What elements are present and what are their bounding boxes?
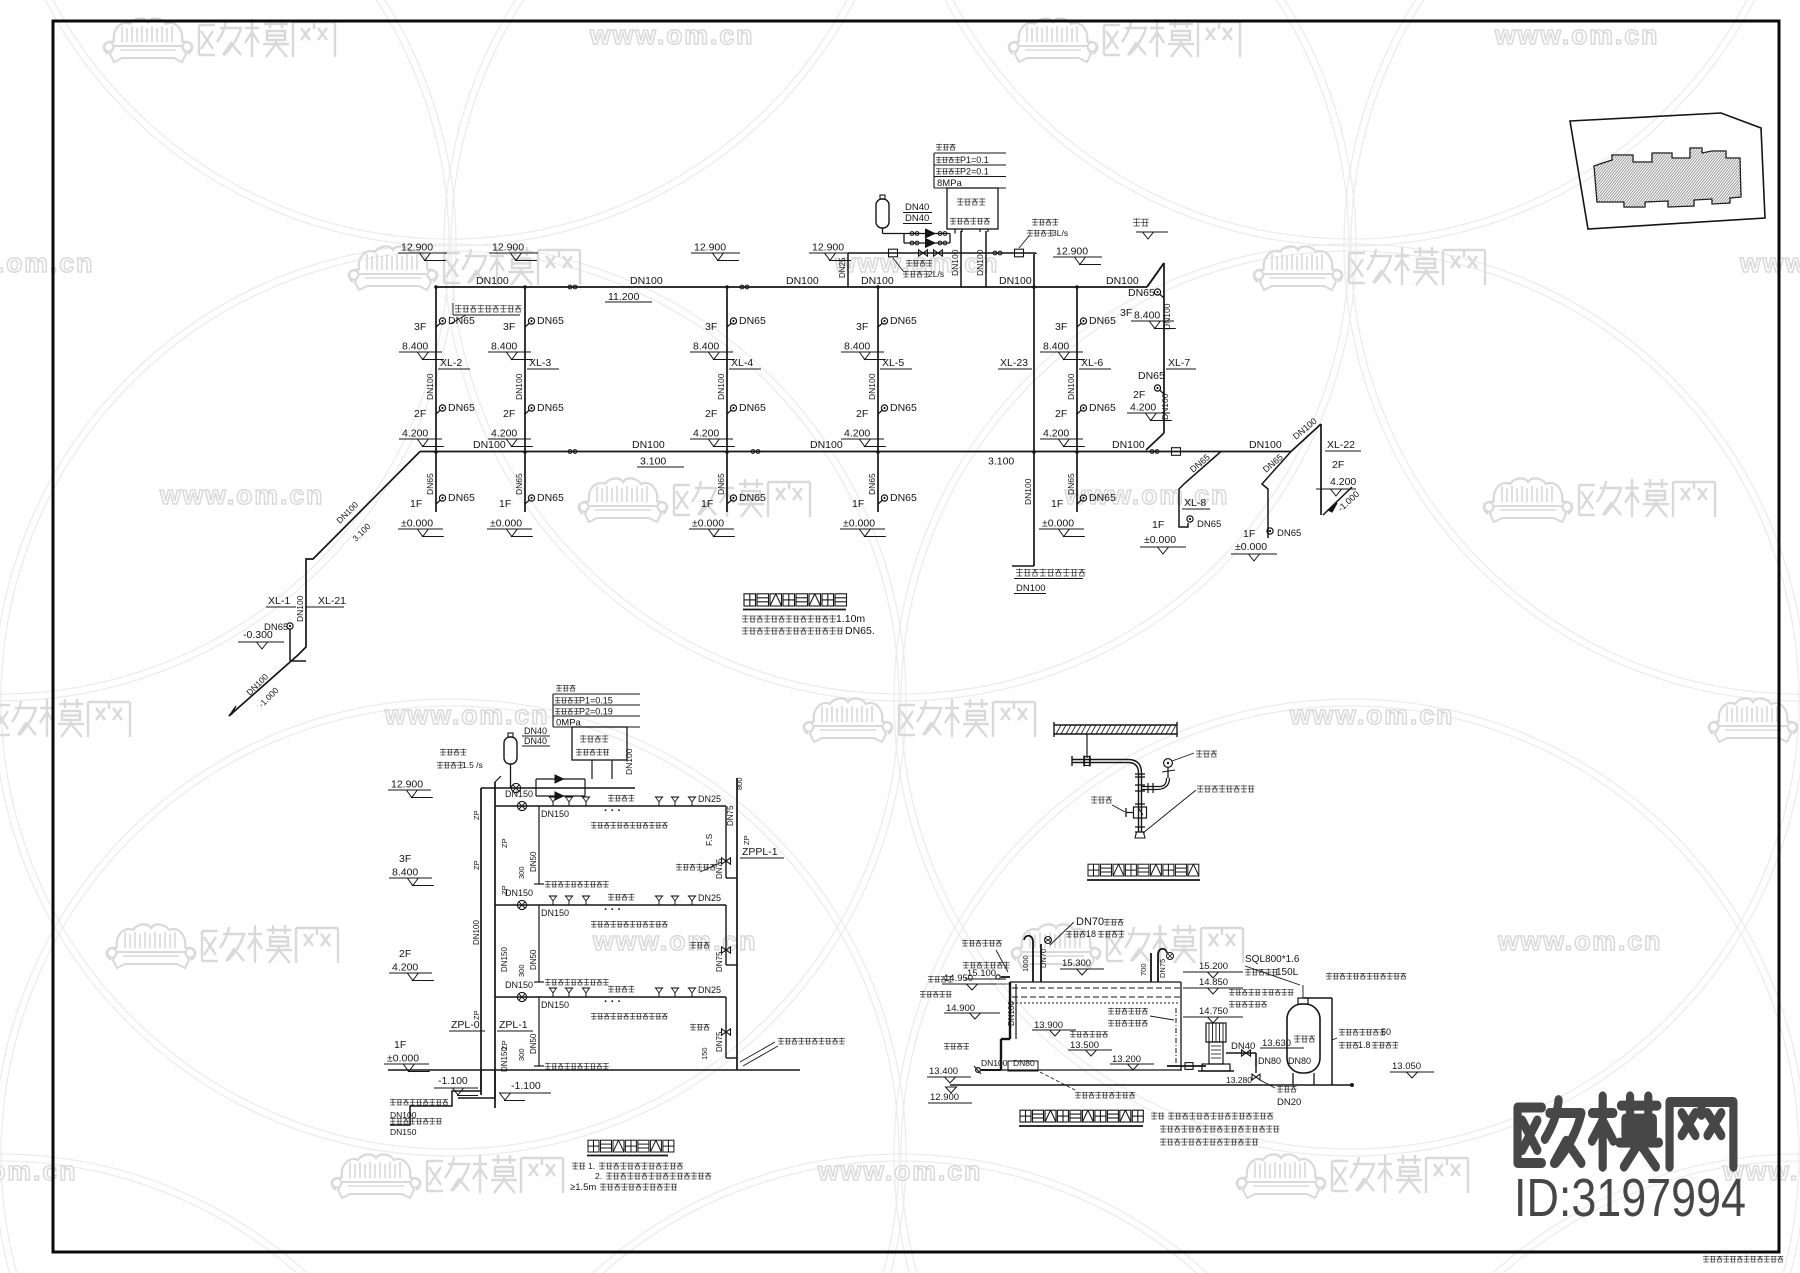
pressure gauge (1167, 768, 1169, 778)
riser ZPL-1 (494, 782, 496, 1108)
title roof tank (1020, 1110, 1031, 1122)
svg-text:ZP: ZP (472, 810, 481, 820)
svg-text:±0.000: ±0.000 (387, 1053, 419, 1065)
pump branch pipes (883, 233, 951, 235)
svg-text:2F: 2F (503, 408, 515, 420)
svg-text:DN150: DN150 (505, 888, 533, 898)
hydrant 1F (436, 500, 441, 504)
watermark om logo (332, 1154, 563, 1198)
watermark om logo (804, 698, 1035, 742)
watermark om logo (349, 246, 580, 290)
svg-text:±0.000: ±0.000 (401, 518, 433, 530)
watermark om logo (1709, 698, 1800, 742)
svg-text:DN65: DN65 (1089, 402, 1116, 414)
svg-text:XL-2: XL-2 (440, 357, 462, 369)
svg-text:DN100: DN100 (473, 439, 506, 451)
svg-text:2F: 2F (1055, 408, 1067, 420)
svg-text:DN150: DN150 (541, 908, 569, 918)
svg-text:4.200: 4.200 (1043, 428, 1069, 440)
svg-text:DN100: DN100 (975, 249, 985, 276)
watermark circle (444, 1154, 1356, 1273)
svg-text:DN65: DN65 (1128, 287, 1155, 299)
svg-text:DN150: DN150 (500, 947, 509, 972)
vent pipe 2 (1150, 953, 1152, 982)
branch drop DN75 (725, 905, 727, 965)
drain stub (538, 997, 540, 1066)
svg-text:XL-5: XL-5 (882, 357, 904, 369)
svg-text:DN150: DN150 (541, 1000, 569, 1010)
svg-text:DN100: DN100 (632, 439, 665, 451)
svg-text:DN25: DN25 (838, 257, 847, 278)
svg-text:8.400: 8.400 (693, 341, 719, 353)
sprinkler notes (572, 1162, 578, 1164)
svg-text:DN100: DN100 (1066, 373, 1076, 400)
branch note to city main (1012, 565, 1034, 567)
svg-text:8.400: 8.400 (1134, 310, 1160, 322)
svg-text:XL-4: XL-4 (731, 357, 753, 369)
svg-text:12.900: 12.900 (694, 242, 726, 254)
hydrant 3F (525, 323, 530, 327)
watermark om logo (1012, 924, 1243, 968)
svg-text:3F: 3F (503, 321, 515, 333)
svg-text:1F: 1F (852, 498, 864, 510)
tank bottom note (1040, 1072, 1075, 1090)
watermark om logo (579, 478, 810, 522)
svg-text:2F: 2F (1332, 459, 1344, 471)
svg-text:DN100: DN100 (716, 373, 726, 400)
svg-text:2L/s: 2L/s (928, 269, 944, 279)
svg-text:DN25: DN25 (698, 893, 721, 903)
svg-text:DN75: DN75 (715, 858, 724, 879)
svg-text:DN100: DN100 (295, 595, 305, 622)
signal switch labels (1019, 236, 1029, 248)
svg-text:www.om.cn: www.om.cn (1497, 926, 1662, 956)
header fittings (889, 249, 898, 257)
svg-text:DN100: DN100 (786, 275, 819, 287)
ground line (388, 1069, 800, 1071)
svg-text:DN65: DN65 (890, 315, 917, 327)
watermark om logo (1484, 478, 1715, 522)
svg-text:1F: 1F (394, 1039, 406, 1051)
hydrant 3F (727, 323, 732, 327)
sprinkler switch labels (440, 748, 446, 750)
svg-text:1F: 1F (499, 498, 511, 510)
svg-text:2F: 2F (399, 948, 411, 960)
svg-text:DN40: DN40 (905, 213, 929, 224)
svg-text:12.900: 12.900 (812, 242, 844, 254)
svg-text:-1.100: -1.100 (438, 1075, 468, 1087)
hydrant XL-7 2F (1160, 390, 1165, 394)
svg-text:≥1.5m: ≥1.5m (570, 1182, 596, 1193)
svg-text:DN150: DN150 (505, 789, 533, 799)
svg-text:DN75: DN75 (715, 951, 724, 972)
hydrant 1F (525, 500, 530, 504)
svg-text:DN100: DN100 (1162, 303, 1172, 330)
key plan outline (1570, 113, 1765, 229)
svg-text:DN65: DN65 (537, 402, 564, 414)
sprinkler feed line (481, 787, 635, 789)
svg-text:DN65: DN65 (448, 492, 475, 504)
level glass (1175, 1008, 1177, 1066)
pipe to -1.000 (1323, 487, 1352, 515)
svg-text:1F: 1F (701, 498, 713, 510)
drop to XL-8 (1179, 452, 1221, 528)
svg-text:DN100: DN100 (1007, 1001, 1016, 1026)
riser ZPPL-1 (736, 778, 738, 1070)
svg-text:DN100: DN100 (810, 439, 843, 451)
svg-text:XL-6: XL-6 (1081, 357, 1103, 369)
svg-text:3L/s: 3L/s (1052, 228, 1068, 238)
svg-text:3F: 3F (414, 321, 426, 333)
svg-text:www.om.cn: www.om.cn (817, 1156, 982, 1186)
sprinkler branch 997.0 (495, 996, 726, 998)
drop to mid 1F (1262, 452, 1291, 539)
watermark circle (1344, 0, 1800, 701)
svg-text:-1.100: -1.100 (511, 1080, 541, 1092)
frame stamp text (1703, 1255, 1709, 1257)
svg-text:±0.000: ±0.000 (843, 518, 875, 530)
svg-text:· · ·: · · · (604, 996, 621, 1008)
watermark om logo (1254, 246, 1485, 290)
svg-text:8.400: 8.400 (491, 341, 517, 353)
svg-text:700: 700 (1139, 963, 1148, 976)
svg-text:13.200: 13.200 (1112, 1054, 1141, 1065)
left level marks (962, 939, 968, 941)
svg-text:150: 150 (700, 1047, 709, 1060)
svg-text:DN70: DN70 (1076, 916, 1104, 928)
svg-text:2F: 2F (705, 408, 717, 420)
svg-text:DN65: DN65 (1197, 519, 1221, 530)
hydrant 2F (436, 410, 441, 414)
title sprinkler system (588, 1140, 599, 1152)
pump lower (926, 239, 935, 248)
left outlet pipes (981, 1069, 1001, 1071)
svg-text:2.: 2. (595, 1171, 602, 1181)
svg-text:3.100: 3.100 (988, 456, 1014, 468)
pump discharge (1226, 1052, 1256, 1054)
title end test device (1088, 864, 1099, 876)
svg-text:4.200: 4.200 (491, 428, 517, 440)
svg-text:XL-21: XL-21 (318, 595, 346, 607)
pressure data table (934, 152, 1006, 154)
svg-text:DN100: DN100 (1016, 583, 1046, 594)
hydrant XL-8 (1187, 516, 1193, 522)
svg-text:DN150: DN150 (505, 980, 533, 990)
riser ZPL-0 (480, 788, 482, 1095)
hydrant 2F (878, 410, 883, 414)
svg-text:3F: 3F (399, 853, 411, 865)
svg-text:DN100: DN100 (425, 373, 435, 400)
svg-text:14.750: 14.750 (1199, 1006, 1228, 1017)
svg-text:DN100: DN100 (476, 275, 509, 287)
water levels dashed (1012, 987, 1180, 989)
svg-text:DN100: DN100 (1249, 439, 1282, 451)
svg-text:ZPPL-1: ZPPL-1 (742, 846, 778, 858)
sprinkler branch 905.0 (495, 904, 726, 906)
svg-text:4.200: 4.200 (402, 428, 428, 440)
svg-text:ZPL-0: ZPL-0 (451, 1019, 480, 1031)
junction dots (434, 450, 438, 454)
tank notes (1151, 1112, 1157, 1114)
svg-text:DN65: DN65 (1277, 528, 1301, 539)
riser XL-2 (435, 287, 437, 512)
svg-text:DN20: DN20 (1277, 1097, 1301, 1108)
svg-text:DN65.: DN65. (845, 625, 875, 637)
watermark circle (894, 699, 1800, 1273)
svg-text:DN25: DN25 (698, 985, 721, 995)
boxed note (455, 305, 462, 307)
watermark om logo (107, 924, 338, 968)
svg-text:DN65: DN65 (739, 315, 766, 327)
svg-text:DN65: DN65 (890, 492, 917, 504)
svg-text:www.om.cn: www.om.cn (0, 1156, 77, 1186)
hydrant 2F (1077, 410, 1082, 414)
hydrant 2F (525, 410, 530, 414)
tank outlet risers (960, 231, 962, 287)
elbow down (1128, 760, 1142, 774)
sprinkler pressure table (553, 693, 640, 695)
svg-text:12.900: 12.900 (401, 242, 433, 254)
svg-text:±0.000: ±0.000 (1042, 518, 1074, 530)
svg-text:DN100: DN100 (630, 275, 663, 287)
svg-text:DN75: DN75 (715, 1031, 724, 1052)
svg-text:DN80: DN80 (1288, 1056, 1311, 1066)
right pipe (1331, 998, 1333, 1085)
svg-text:DN100: DN100 (472, 920, 481, 945)
svg-text:· · ·: · · · (604, 805, 621, 817)
watermark om logo (0, 698, 130, 742)
svg-text:P1=0.15: P1=0.15 (579, 696, 613, 706)
sprinkler expansion tank (504, 737, 517, 764)
pump upper (926, 229, 935, 238)
svg-text:DN100: DN100 (999, 275, 1032, 287)
drain valve (1255, 1066, 1257, 1073)
svg-text:8.400: 8.400 (1043, 341, 1069, 353)
svg-text:DN150: DN150 (500, 1047, 509, 1072)
svg-text:XL-1: XL-1 (268, 595, 290, 607)
svg-text:1000: 1000 (1021, 955, 1030, 972)
svg-text:DN65: DN65 (537, 492, 564, 504)
svg-text:14.900: 14.900 (946, 1003, 975, 1014)
svg-text:DN40: DN40 (524, 736, 547, 746)
svg-text:1.5 /s: 1.5 /s (462, 760, 483, 770)
svg-text:www.om.cn: www.om.cn (592, 926, 757, 956)
riser XL-23 (1033, 254, 1035, 566)
svg-text:P2=0.19: P2=0.19 (579, 707, 613, 717)
riser XL-3 (524, 287, 526, 512)
watermark circle (1344, 1154, 1800, 1273)
svg-text:XL-23: XL-23 (1000, 357, 1028, 369)
watermark circle (0, 699, 906, 1273)
svg-text:8.400: 8.400 (392, 867, 418, 879)
svg-text:F.S: F.S (704, 833, 714, 846)
svg-text:DN100: DN100 (861, 275, 894, 287)
svg-text:DN100: DN100 (867, 373, 877, 400)
hydrant 3F (878, 323, 883, 327)
svg-text:50: 50 (1381, 1027, 1391, 1037)
drain stub (538, 806, 540, 884)
svg-text:DN65: DN65 (537, 315, 564, 327)
title notes (742, 615, 748, 617)
svg-text:4.200: 4.200 (392, 962, 418, 974)
svg-text:1F: 1F (1051, 498, 1063, 510)
svg-text:8.400: 8.400 (402, 341, 428, 353)
svg-text:-0.300: -0.300 (243, 629, 273, 641)
svg-text:DN80: DN80 (1258, 1056, 1281, 1066)
svg-text:DN150: DN150 (390, 1127, 417, 1137)
vent pipe 1 (1032, 942, 1034, 982)
svg-text:ZPL-1: ZPL-1 (499, 1019, 528, 1031)
svg-text:13.050: 13.050 (1392, 1061, 1421, 1072)
title hydrant system (744, 594, 756, 606)
svg-text:3F: 3F (1055, 321, 1067, 333)
pump unit (1206, 1023, 1226, 1042)
svg-text:15.200: 15.200 (1199, 961, 1228, 972)
svg-text:SQL800*1.6: SQL800*1.6 (1245, 954, 1300, 965)
svg-text:ID:3197994: ID:3197994 (1514, 1168, 1746, 1228)
svg-text:12.900: 12.900 (391, 779, 423, 791)
tee to gauge (1135, 784, 1145, 786)
svg-text:1F: 1F (1152, 519, 1164, 531)
svg-text:XL-7: XL-7 (1168, 357, 1190, 369)
svg-text:800: 800 (735, 777, 744, 790)
watermark circle (0, 244, 906, 1156)
fire water tank box (947, 188, 998, 229)
svg-text:±0.000: ±0.000 (1235, 541, 1267, 553)
watermark circle (0, 1154, 456, 1273)
big om logo (1518, 1096, 1734, 1166)
svg-text:ZP: ZP (742, 835, 751, 845)
watermark circle (0, 0, 456, 701)
svg-text:4.200: 4.200 (1330, 476, 1356, 488)
hydrant 3F (436, 323, 441, 327)
svg-text:13.500: 13.500 (1070, 1040, 1099, 1051)
svg-text:DN65: DN65 (890, 402, 917, 414)
svg-text:DN50: DN50 (529, 1033, 538, 1054)
watermark om logo (1237, 1154, 1468, 1198)
svg-text:±0.000: ±0.000 (1144, 534, 1176, 546)
svg-text:DN100: DN100 (1160, 393, 1170, 420)
expansion tank (876, 199, 889, 228)
watermark om logo (104, 18, 335, 62)
svg-text:DN100: DN100 (1112, 439, 1145, 451)
pipe union (1083, 756, 1085, 767)
ceiling slab hatched (1054, 724, 1177, 726)
svg-text:DN65: DN65 (867, 473, 877, 495)
svg-text:3.100: 3.100 (640, 456, 666, 468)
svg-text:XL-3: XL-3 (529, 357, 551, 369)
glass gauge labels (1108, 1007, 1114, 1009)
main DN100 top header (436, 286, 1147, 288)
svg-text:www.om.cn: www.om.cn (1494, 20, 1659, 50)
svg-text:DN65: DN65 (739, 402, 766, 414)
svg-text:www.om.cn: www.om.cn (0, 248, 94, 278)
hydrant mid 1F (1267, 528, 1273, 534)
svg-text:2F: 2F (414, 408, 426, 420)
svg-text:DN75: DN75 (1158, 959, 1167, 978)
svg-text:300: 300 (517, 964, 526, 977)
svg-text:DN40: DN40 (905, 202, 929, 213)
svg-text:18: 18 (1086, 929, 1096, 939)
svg-text:12.900: 12.900 (492, 242, 524, 254)
stop valve (1135, 803, 1145, 805)
svg-text:DN65: DN65 (739, 492, 766, 504)
svg-text:DN65: DN65 (448, 315, 475, 327)
svg-text:4.200: 4.200 (1130, 402, 1156, 414)
svg-text:12.900: 12.900 (930, 1092, 959, 1103)
left stub (847, 253, 849, 287)
riser XL-4 (726, 287, 728, 512)
svg-text:DN65: DN65 (1089, 315, 1116, 327)
svg-text:DN100: DN100 (950, 249, 960, 276)
svg-text:300: 300 (517, 866, 526, 879)
hanger rod (1086, 734, 1088, 758)
signal valve 2F (722, 947, 727, 953)
sprinkler tank box (572, 727, 627, 760)
hydrant 2F (727, 410, 732, 414)
inlet pipe left (1001, 976, 1010, 978)
svg-text:1.: 1. (588, 1161, 595, 1171)
svg-text:1.10m: 1.10m (836, 613, 865, 625)
leader to street note (740, 1042, 775, 1062)
svg-text:DN150: DN150 (541, 809, 569, 819)
svg-text:300: 300 (517, 1048, 526, 1061)
below ground pipes (390, 1070, 481, 1125)
svg-text:DN50: DN50 (529, 851, 538, 872)
pressure vessel (1287, 1004, 1320, 1073)
svg-text:±0.000: ±0.000 (692, 518, 724, 530)
svg-text:DN100: DN100 (624, 748, 634, 775)
svg-text:DN70: DN70 (1039, 949, 1048, 968)
svg-text:14.950: 14.950 (944, 973, 973, 984)
svg-text:ZP: ZP (500, 838, 509, 848)
svg-text:13.400: 13.400 (929, 1066, 958, 1077)
sprinkler branch 806.0 (495, 805, 726, 807)
discharge header 12.900 (848, 252, 1036, 254)
svg-text:12.900: 12.900 (1056, 246, 1088, 258)
svg-text:1F: 1F (410, 498, 422, 510)
svg-text:DN65: DN65 (425, 473, 435, 495)
watermark circle (444, 0, 1356, 701)
riser XL-5 (877, 287, 879, 512)
riser XL-22 (1291, 424, 1321, 452)
roof slab line (950, 1084, 1352, 1086)
svg-text:DN40: DN40 (524, 726, 547, 736)
pump suction pipe (1167, 1065, 1206, 1067)
svg-text:DN65: DN65 (448, 402, 475, 414)
svg-text:DN100: DN100 (1023, 478, 1033, 505)
svg-text:2F: 2F (1133, 389, 1145, 401)
top right note (1326, 972, 1332, 974)
funnel outlet (1135, 826, 1145, 828)
test head label (1197, 785, 1203, 787)
svg-text:±0.000: ±0.000 (490, 518, 522, 530)
svg-text:www.om.cn: www.om.cn (1739, 248, 1800, 278)
test horizontal pipe (1072, 759, 1128, 761)
svg-text:3F: 3F (1120, 307, 1132, 319)
svg-text:13.900: 13.900 (1034, 1020, 1063, 1031)
watermark om logo (1009, 18, 1240, 62)
hydrant 1F (1077, 500, 1082, 504)
svg-text:11.200: 11.200 (608, 291, 639, 303)
branch drop DN75 (725, 997, 727, 1058)
svg-text:3F: 3F (705, 321, 717, 333)
svg-text:ZP: ZP (472, 860, 481, 870)
svg-text:8.400: 8.400 (844, 341, 870, 353)
svg-text:XL-22: XL-22 (1327, 439, 1355, 451)
flow switch labels (893, 258, 903, 271)
svg-text:DN50: DN50 (529, 949, 538, 970)
